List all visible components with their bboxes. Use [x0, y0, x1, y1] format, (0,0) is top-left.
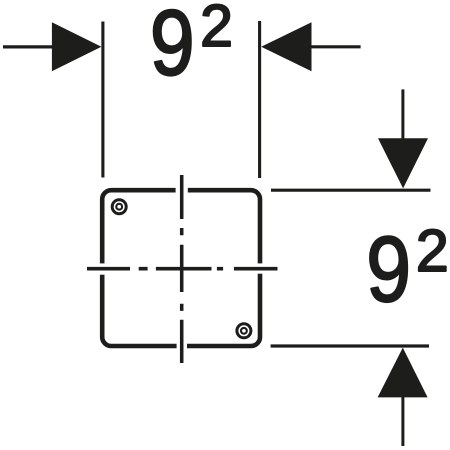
svg-text:9: 9	[150, 0, 195, 95]
svg-text:2: 2	[200, 0, 233, 59]
svg-text:2: 2	[416, 218, 449, 284]
svg-text:9: 9	[366, 219, 411, 321]
